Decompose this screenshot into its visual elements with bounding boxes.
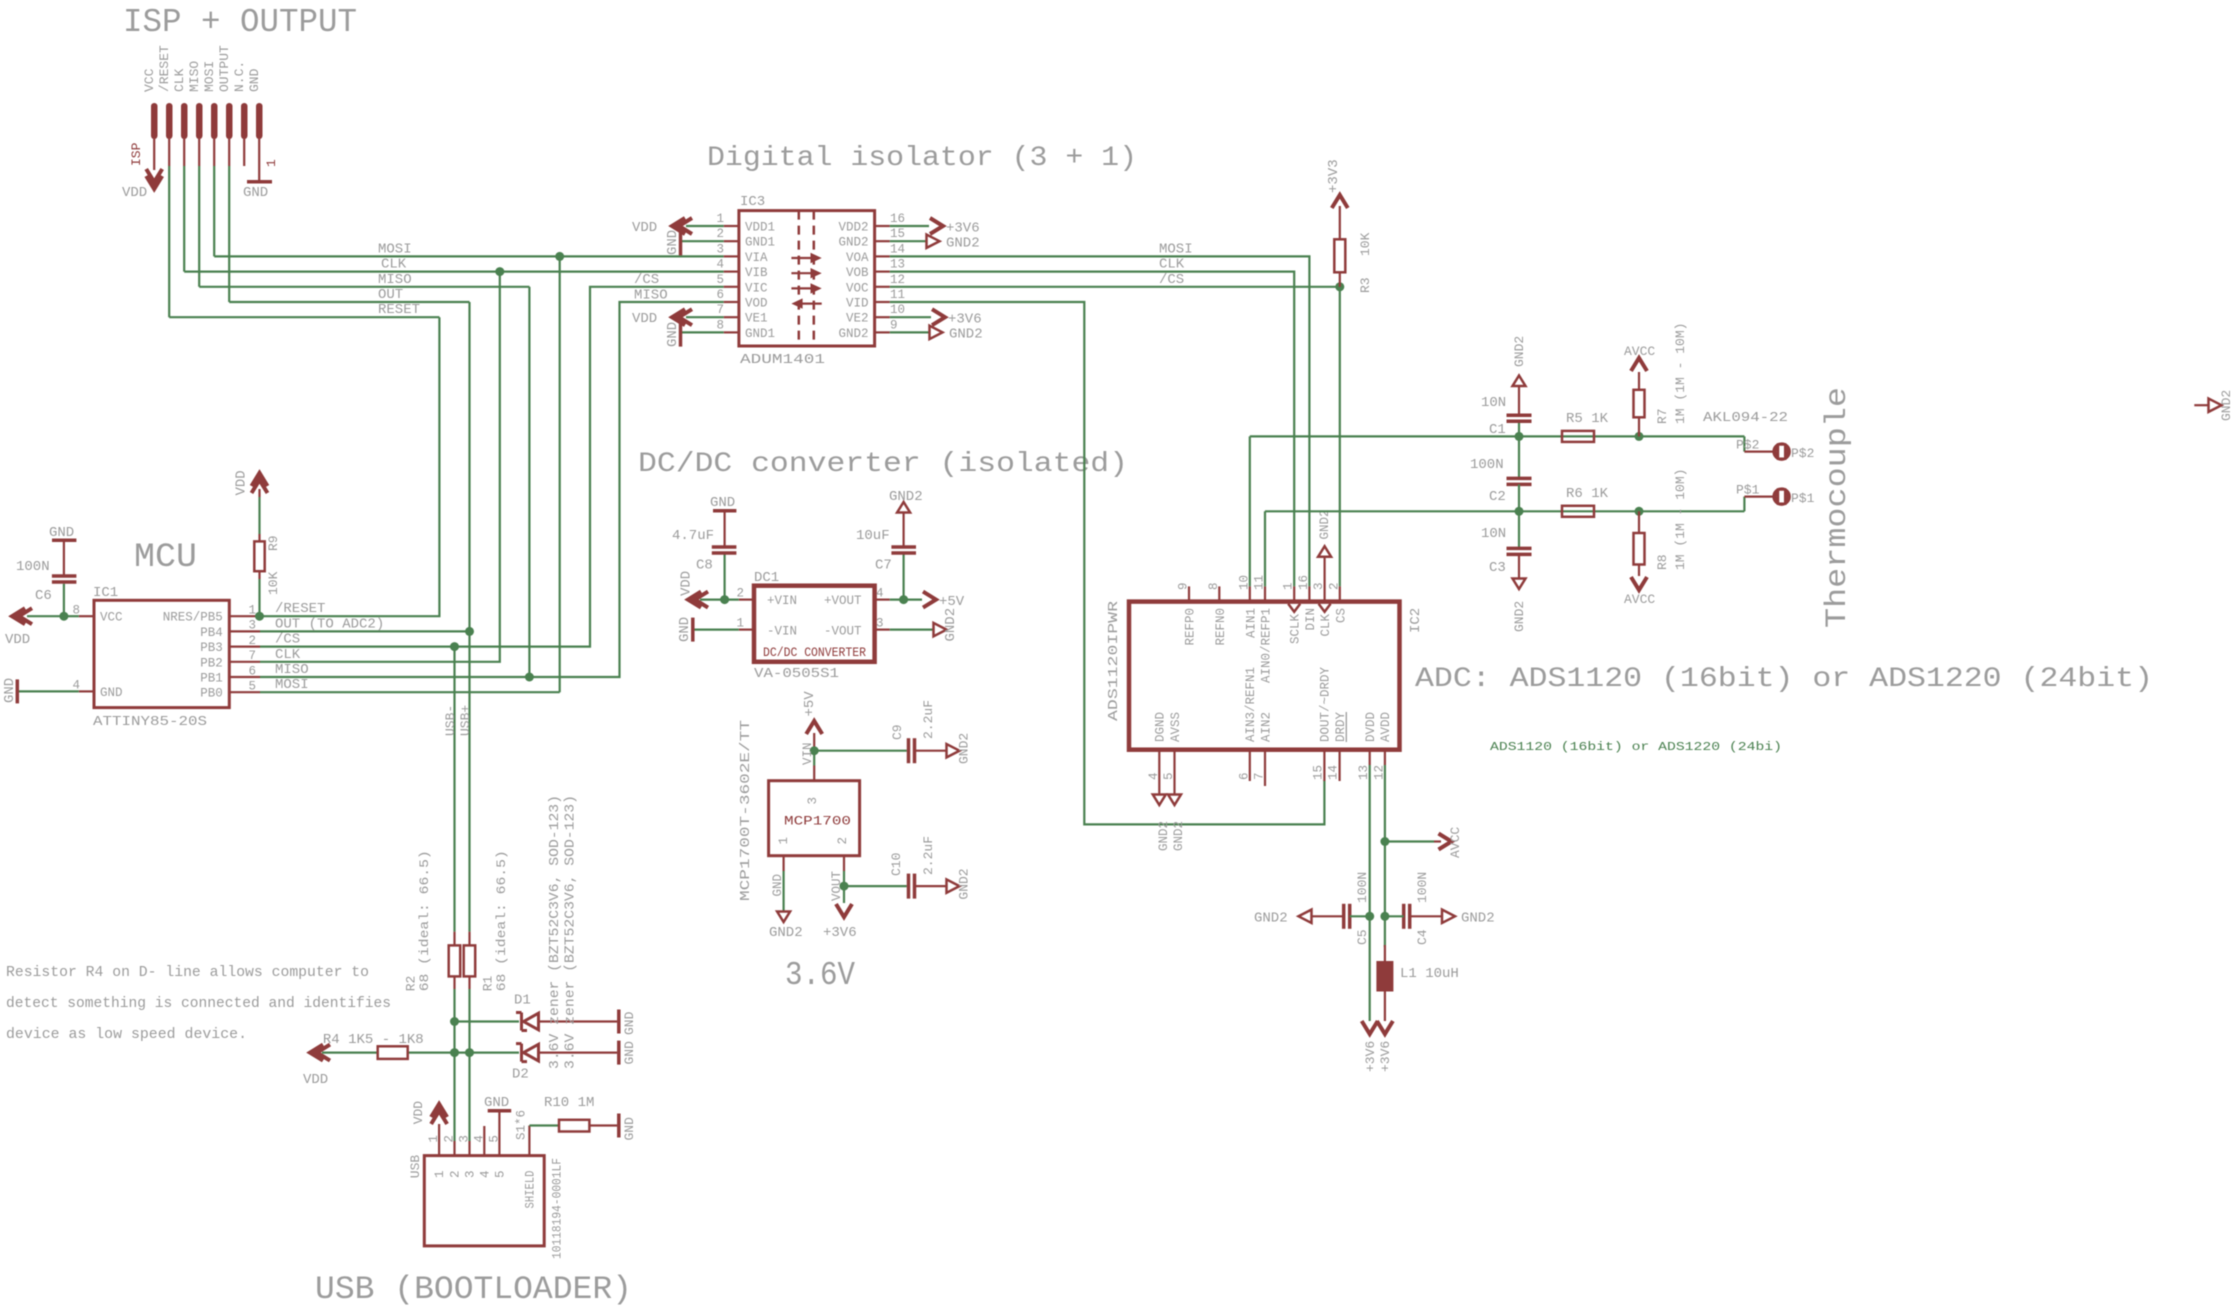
svg-text:VDD: VDD bbox=[234, 470, 250, 495]
wire net OUT horizontal bbox=[229, 301, 469, 303]
svg-text:CLK: CLK bbox=[1319, 614, 1333, 637]
svg-text:VIB: VIB bbox=[745, 266, 768, 280]
svg-text:AVCC: AVCC bbox=[1624, 344, 1655, 359]
wire D2 to GND bbox=[539, 1051, 618, 1053]
svg-text:R3: R3 bbox=[1358, 277, 1373, 293]
wire R10 to GND bbox=[589, 1124, 617, 1126]
pin 16 stub bbox=[875, 225, 890, 227]
svg-text:10uF: 10uF bbox=[856, 528, 890, 544]
svg-text:VOB: VOB bbox=[846, 266, 869, 280]
node junction AVDD / AVCC bbox=[1380, 837, 1389, 846]
capacitor C9 plates bbox=[907, 738, 911, 763]
ground GND bar at IC3 pin8 bbox=[679, 323, 683, 347]
svg-text:10K: 10K bbox=[1358, 232, 1373, 256]
inductor L1 wire upper bbox=[1384, 945, 1386, 961]
svg-text:D2: D2 bbox=[512, 1067, 529, 1083]
svg-text:GND2: GND2 bbox=[1512, 601, 1527, 632]
pin 2 stub bbox=[724, 240, 739, 242]
svg-text:PB0: PB0 bbox=[200, 687, 223, 701]
resistor R8 wire upper bbox=[1638, 511, 1640, 533]
svg-text:AIN0/REFP1: AIN0/REFP1 bbox=[1260, 608, 1274, 683]
svg-text:C6: C6 bbox=[35, 588, 52, 604]
capacitor C3 wire lower bbox=[1518, 554, 1520, 578]
svg-text:10118194-0001LF: 10118194-0001LF bbox=[550, 1158, 564, 1259]
svg-text:GND: GND bbox=[243, 185, 268, 201]
svg-text:ATTINY85-20S: ATTINY85-20S bbox=[93, 714, 207, 730]
wire ISP pin6 OUTPUT down bbox=[228, 139, 230, 166]
svg-text:VE1: VE1 bbox=[745, 312, 768, 326]
svg-text:1: 1 bbox=[264, 159, 279, 167]
svg-text:ISP + OUTPUT: ISP + OUTPUT bbox=[123, 4, 357, 41]
supply +3V6 arrow at pin10 bbox=[932, 309, 945, 325]
capacitor C2 wire upper bbox=[1518, 436, 1520, 477]
svg-text:VOC: VOC bbox=[846, 281, 869, 295]
svg-text:GND2: GND2 bbox=[949, 327, 983, 343]
svg-text:3: 3 bbox=[876, 617, 884, 631]
svg-text:detect something is connected: detect something is connected and identi… bbox=[6, 995, 391, 1012]
pin 3 stub PB4 bbox=[229, 630, 260, 632]
svg-text:MOSI: MOSI bbox=[202, 61, 217, 92]
wire ISP pin3 CLK down bbox=[183, 139, 185, 166]
pin 7 stub bbox=[724, 316, 739, 318]
svg-text:3: 3 bbox=[464, 1170, 478, 1178]
svg-text:7: 7 bbox=[1253, 772, 1267, 780]
pin 1 stub SCLK bbox=[1293, 586, 1295, 601]
capacitor C5 plates bbox=[1342, 904, 1346, 929]
supply GND2 triangle above IC2 pin3 bbox=[1318, 546, 1331, 557]
svg-text:100N: 100N bbox=[1470, 457, 1504, 473]
wire VCC to VDD arrow bbox=[27, 615, 64, 617]
ground GND bar above C8 bbox=[713, 509, 736, 513]
wire GND to pin8 bbox=[682, 331, 724, 333]
svg-text:+VIN: +VIN bbox=[767, 594, 797, 608]
wire D1 to GND bbox=[539, 1020, 618, 1022]
svg-text:GND2: GND2 bbox=[2219, 390, 2233, 421]
pin 4 stub (USB) bbox=[483, 1126, 485, 1156]
svg-text:1: 1 bbox=[736, 617, 744, 631]
svg-text:DC/DC CONVERTER: DC/DC CONVERTER bbox=[763, 646, 866, 660]
overline for DRDY bbox=[1345, 712, 1347, 742]
svg-text:P$1: P$1 bbox=[1791, 491, 1815, 506]
pin 4 stub GND bbox=[79, 690, 94, 692]
svg-text:1: 1 bbox=[433, 1170, 447, 1178]
wire +VIN left bbox=[700, 598, 739, 600]
svg-text:GND2: GND2 bbox=[769, 925, 803, 941]
svg-text:OUT (TO ADC2): OUT (TO ADC2) bbox=[275, 616, 384, 632]
svg-text:100N: 100N bbox=[1355, 872, 1370, 903]
pin 2 stub PB3 bbox=[229, 645, 260, 647]
svg-text:11: 11 bbox=[890, 288, 905, 302]
supply VDD arrow (left) at R4 bbox=[310, 1045, 323, 1061]
ground GND bar at R10 bbox=[617, 1114, 621, 1138]
svg-text:/CS: /CS bbox=[1159, 272, 1184, 288]
capacitor C6 wire lower bbox=[63, 584, 65, 617]
svg-text:MCP1700T-3602E/TT: MCP1700T-3602E/TT bbox=[738, 720, 754, 901]
svg-text:SCLK: SCLK bbox=[1289, 614, 1303, 645]
supply AVCC arrow (down) below R8 bbox=[1631, 577, 1647, 590]
svg-text:GND2: GND2 bbox=[838, 236, 868, 250]
svg-text:SHIELD: SHIELD bbox=[524, 1171, 538, 1209]
isolation barrier dashed line right bbox=[813, 211, 816, 346]
svg-text:GND2: GND2 bbox=[1512, 336, 1527, 367]
capacitor C4 plates bbox=[1402, 904, 1406, 929]
capacitor C9 wire left bbox=[814, 750, 907, 752]
svg-text:-VOUT: -VOUT bbox=[824, 625, 862, 639]
wire pin15 to GND2 bbox=[890, 240, 926, 242]
wire USB- down bbox=[453, 989, 455, 1141]
pin 12 stub AVDD bbox=[1384, 750, 1386, 765]
wire net MISO(ISP) horizontal bbox=[199, 286, 529, 288]
channel arrow A (right) bbox=[791, 257, 815, 259]
capacitor C1 wire lower bbox=[1518, 423, 1520, 436]
resistor R4 body bbox=[378, 1046, 408, 1059]
svg-text:7: 7 bbox=[716, 303, 724, 317]
node junction C1 bbox=[1515, 432, 1524, 441]
node junction R5/R7 bbox=[1635, 432, 1644, 441]
svg-text:GND: GND bbox=[677, 617, 693, 642]
resistor R7 body bbox=[1634, 390, 1645, 418]
wire to pad P$1 bbox=[1743, 497, 1745, 512]
supply +3V6 arrow (down) AVDD bbox=[1377, 1021, 1393, 1034]
wire +VOUT right bbox=[890, 598, 922, 600]
svg-text:C1: C1 bbox=[1489, 422, 1506, 438]
supply VDD arrow (left) at IC3 pin1 bbox=[672, 218, 685, 234]
svg-text:DVDD: DVDD bbox=[1364, 712, 1378, 742]
IC IC2 ADS1120 box bbox=[1129, 602, 1400, 750]
svg-text:VDD: VDD bbox=[632, 220, 657, 236]
diode D1 zener bbox=[516, 1013, 539, 1031]
resistor R10 body bbox=[559, 1120, 589, 1132]
svg-text:GND: GND bbox=[665, 230, 681, 255]
wire pin9 to GND2 bbox=[890, 331, 929, 333]
ground GND bar above C6 bbox=[52, 539, 76, 543]
resistor R2 wire upper bbox=[453, 932, 455, 946]
svg-text:9: 9 bbox=[890, 318, 898, 332]
svg-text:3: 3 bbox=[248, 619, 256, 633]
wire net AIN0/C2 horizontal bbox=[1265, 510, 1744, 512]
svg-text:2.2uF: 2.2uF bbox=[921, 700, 936, 739]
wire net AIN1/C1 horizontal bbox=[1250, 435, 1745, 437]
resistor R3 body bbox=[1334, 239, 1345, 272]
svg-text:4: 4 bbox=[72, 679, 80, 693]
svg-text:C2: C2 bbox=[1489, 489, 1506, 505]
svg-text:1: 1 bbox=[1282, 582, 1296, 590]
wire shield to R10 bbox=[529, 1124, 559, 1126]
svg-text:1M (1M - 10M): 1M (1M - 10M) bbox=[1673, 323, 1688, 424]
node junction DVDD / C5 bbox=[1365, 912, 1374, 921]
pin 11 stub AIN0/REFP1 bbox=[1264, 586, 1266, 601]
svg-text:MISO: MISO bbox=[275, 662, 309, 678]
pin 8 stub REFN0 bbox=[1218, 586, 1220, 601]
svg-text:GND: GND bbox=[49, 525, 74, 541]
IC DC1 VA-0505S1 box bbox=[754, 586, 875, 662]
pin 5 stub GND (USB) bbox=[498, 1112, 500, 1155]
svg-text:CLK: CLK bbox=[381, 257, 407, 273]
svg-text:GND: GND bbox=[622, 1041, 637, 1065]
capacitor C5 wire left bbox=[1312, 915, 1344, 917]
svg-text:GND2: GND2 bbox=[1172, 821, 1186, 851]
capacitor C8 wire lower bbox=[723, 555, 725, 600]
supply +3V6 arrow (down) DVDD bbox=[1362, 1021, 1378, 1034]
pin 4 stub +VOUT bbox=[875, 598, 890, 600]
svg-text:MOSI: MOSI bbox=[275, 677, 309, 693]
pin 10 stub AIN1 bbox=[1249, 586, 1251, 601]
svg-text:C8: C8 bbox=[696, 558, 713, 574]
supply VDD arrow (down) at ISP pin1 bbox=[146, 176, 162, 189]
pin 6 stub bbox=[724, 301, 739, 303]
capacitor C10 wire right bbox=[915, 885, 947, 887]
svg-text:R8: R8 bbox=[1655, 554, 1670, 570]
supply +3V6 arrow (down) below MCP bbox=[836, 904, 852, 917]
svg-text:GND: GND bbox=[484, 1095, 509, 1111]
svg-text:8: 8 bbox=[1207, 582, 1221, 590]
wire net CLK vertical to MCU PB2 bbox=[260, 272, 500, 662]
wire to pad P$2 bbox=[1743, 436, 1745, 451]
svg-text:13: 13 bbox=[890, 258, 905, 272]
wire R4 left bbox=[322, 1051, 378, 1053]
wire GND down bbox=[782, 871, 784, 911]
wire ISP pin2 /RESET down bbox=[168, 139, 170, 166]
resistor R2 body bbox=[449, 945, 461, 976]
capacitor C1 wire upper bbox=[1518, 387, 1520, 416]
resistor R7 wire upper bbox=[1638, 372, 1640, 390]
node junction +VOUT / C7 bbox=[899, 595, 908, 604]
svg-text:GND2: GND2 bbox=[957, 733, 972, 764]
resistor R2 wire lower bbox=[453, 976, 455, 989]
capacitor C4 wire left bbox=[1385, 915, 1404, 917]
svg-text:100N: 100N bbox=[1415, 872, 1430, 903]
supply GND2 triangle at pin15 bbox=[927, 235, 940, 248]
pin SHIELD stub bbox=[528, 1126, 530, 1156]
svg-text:GND: GND bbox=[247, 68, 262, 92]
svg-text:GND2: GND2 bbox=[889, 489, 923, 505]
wire net /CS right bbox=[890, 286, 1340, 288]
capacitor C5 wire right bbox=[1350, 915, 1370, 917]
wire DVDD down bbox=[1369, 765, 1371, 1021]
svg-text:VDD: VDD bbox=[632, 311, 657, 327]
svg-text:PB4: PB4 bbox=[200, 626, 223, 640]
capacitor C7 wire lower bbox=[902, 555, 904, 600]
pad P$2 bbox=[1775, 445, 1789, 459]
svg-text:VA-0505S1: VA-0505S1 bbox=[754, 666, 839, 682]
pin 6 stub PB1 bbox=[229, 676, 260, 678]
svg-text:C3: C3 bbox=[1489, 560, 1506, 576]
capacitor C9 wire right bbox=[915, 750, 947, 752]
svg-text:VDD2: VDD2 bbox=[838, 221, 868, 235]
wire net MOSI horizontal bbox=[214, 255, 724, 257]
svg-text:USB+: USB+ bbox=[458, 705, 473, 736]
capacitor C8 wire upper bbox=[723, 512, 725, 547]
wire net MISO2 from MCU PB1 row to IC3 VOD bbox=[260, 302, 724, 677]
svg-text:USB (BOOTLOADER): USB (BOOTLOADER) bbox=[315, 1271, 632, 1307]
supply GND2 triangle above C1 bbox=[1513, 376, 1526, 387]
svg-text:16: 16 bbox=[1297, 575, 1311, 590]
capacitor C3 plates bbox=[1507, 547, 1532, 551]
pin 1 stub NRES bbox=[229, 615, 260, 617]
capacitor C2 plates bbox=[1507, 477, 1532, 481]
svg-text:MISO: MISO bbox=[187, 61, 202, 92]
ground GND bar at MCU pin4 bbox=[16, 679, 20, 703]
pin 3 stub bbox=[724, 255, 739, 257]
supply VDD arrow (left) at IC3 pin7 bbox=[672, 309, 685, 325]
pin 16 stub DIN bbox=[1308, 586, 1310, 601]
wire net OUT vertical to MCU PB4 and USB+ bbox=[468, 302, 470, 932]
wire GND to pin2 bbox=[682, 240, 724, 242]
wire net MOSI2 MCU PB0 row bbox=[260, 691, 560, 693]
pin 1 stub -VIN bbox=[739, 628, 754, 630]
pin 7 stub AIN2 bbox=[1264, 750, 1266, 786]
svg-text:GND: GND bbox=[622, 1011, 637, 1035]
svg-text:GND2: GND2 bbox=[1318, 509, 1332, 539]
svg-text:MCP1700: MCP1700 bbox=[784, 814, 851, 829]
node junction R6/R8 bbox=[1635, 507, 1644, 516]
pin 3 stub -VOUT bbox=[875, 628, 890, 630]
svg-text:/CS: /CS bbox=[634, 272, 659, 288]
supply GND2 triangle right of C9 bbox=[947, 744, 960, 757]
wire -VOUT right bbox=[890, 628, 933, 630]
svg-text:+3V6: +3V6 bbox=[1363, 1041, 1378, 1072]
svg-text:C5: C5 bbox=[1355, 929, 1370, 945]
svg-text:DGND: DGND bbox=[1154, 712, 1168, 742]
pin 13 stub DVDD bbox=[1369, 750, 1371, 765]
svg-text:ADS1120IPWR: ADS1120IPWR bbox=[1106, 600, 1122, 721]
ground GND bar at IC3 pin2 bbox=[679, 232, 683, 256]
resistor R7 wire lower bbox=[1638, 417, 1640, 436]
wire -VIN left bbox=[695, 628, 739, 630]
svg-text:9: 9 bbox=[1177, 582, 1191, 590]
node junction MCU pin1 / R9 bbox=[255, 612, 264, 621]
node junction +VIN / C8 bbox=[720, 595, 729, 604]
svg-text:/CS: /CS bbox=[275, 632, 300, 648]
svg-text:device as low speed device.: device as low speed device. bbox=[6, 1026, 247, 1043]
svg-text:+VOUT: +VOUT bbox=[824, 594, 862, 608]
wire net RESET horizontal bbox=[169, 316, 439, 318]
capacitor C7 plates bbox=[891, 551, 916, 555]
wire pin10 to +3V6 bbox=[890, 316, 931, 318]
wire net /CS down to IC2 CS bbox=[1339, 287, 1341, 587]
supply GND2 triangle above C7 bbox=[897, 502, 910, 513]
svg-text:R9: R9 bbox=[266, 535, 281, 551]
svg-text:ADUM1401: ADUM1401 bbox=[740, 352, 825, 368]
wire net USB- vertical down to R2 bbox=[453, 647, 455, 932]
svg-text:VDD: VDD bbox=[411, 1101, 426, 1125]
svg-text:+3V6: +3V6 bbox=[823, 925, 857, 941]
pin 7 stub PB2 bbox=[229, 661, 260, 663]
svg-text:C4: C4 bbox=[1415, 929, 1430, 945]
svg-text:GND2: GND2 bbox=[1461, 911, 1495, 927]
clock mark CLK bbox=[1319, 604, 1331, 612]
node junction /CS at R3 bbox=[1335, 282, 1344, 291]
svg-text:GND: GND bbox=[710, 495, 735, 511]
pin 5 stub bbox=[724, 286, 739, 288]
supply AVCC arrow (up) above R7 bbox=[1631, 358, 1647, 371]
svg-text:OUT: OUT bbox=[378, 287, 403, 303]
svg-text:3.6V: 3.6V bbox=[785, 957, 855, 994]
resistor R1 body bbox=[464, 945, 476, 976]
svg-text:4.7uF: 4.7uF bbox=[672, 528, 714, 544]
pin 15 stub DOUT bbox=[1323, 750, 1325, 781]
svg-text:CLK: CLK bbox=[275, 647, 301, 663]
node junction VCC/C6 bbox=[59, 612, 68, 621]
pin 13 stub bbox=[875, 271, 890, 273]
wire AIN0 vertical bbox=[1264, 511, 1266, 586]
svg-text:C10: C10 bbox=[889, 853, 904, 876]
svg-text:VOA: VOA bbox=[846, 251, 869, 265]
svg-text:GND: GND bbox=[665, 322, 681, 347]
svg-text:L1 10uH: L1 10uH bbox=[1400, 966, 1459, 982]
supply AVCC arrow right bbox=[1439, 834, 1452, 850]
capacitor C4 wire right bbox=[1410, 915, 1442, 917]
svg-text:VDD: VDD bbox=[678, 571, 694, 596]
svg-text:8: 8 bbox=[716, 318, 724, 332]
wire pin16 to +3V6 bbox=[890, 225, 929, 227]
node junction D2 row left bbox=[450, 1048, 459, 1057]
wire USB+ down bbox=[468, 989, 470, 1141]
svg-text:5: 5 bbox=[1162, 772, 1176, 780]
diode D2 zener bbox=[516, 1044, 539, 1062]
node junction OUT at MCU PB4 row bbox=[465, 627, 474, 636]
svg-text:GND2: GND2 bbox=[838, 327, 868, 341]
svg-text:P$2: P$2 bbox=[1791, 446, 1814, 461]
svg-text:ADS1120 (16bit) or ADS1220 (24: ADS1120 (16bit) or ADS1220 (24bi) bbox=[1490, 740, 1782, 754]
svg-text:Digital isolator (3 + 1): Digital isolator (3 + 1) bbox=[707, 143, 1137, 174]
svg-text:PB1: PB1 bbox=[200, 672, 223, 686]
svg-text:VIA: VIA bbox=[745, 251, 768, 265]
supply +5V arrow (up) above MCP bbox=[806, 721, 822, 734]
svg-text:REFP0: REFP0 bbox=[1184, 608, 1198, 646]
svg-text:GND2: GND2 bbox=[957, 868, 972, 899]
IC IC3 ADUM1401 box bbox=[739, 211, 875, 346]
connector X1 USB box bbox=[424, 1156, 544, 1246]
svg-text:VDD1: VDD1 bbox=[745, 221, 775, 235]
ground GND bar at DC1 pin1 bbox=[691, 618, 695, 642]
capacitor C6 wire upper bbox=[63, 542, 65, 576]
svg-text:USB: USB bbox=[408, 1155, 423, 1179]
wire net CLK horizontal bbox=[184, 271, 724, 273]
svg-text:VIN: VIN bbox=[801, 742, 815, 765]
svg-text:/RESET: /RESET bbox=[157, 45, 172, 92]
svg-text:PB2: PB2 bbox=[200, 656, 223, 670]
svg-text:6: 6 bbox=[716, 288, 724, 302]
supply GND2 triangle below MCP pin1 bbox=[777, 912, 790, 923]
pin 10 stub bbox=[875, 316, 890, 318]
svg-text:+3V6: +3V6 bbox=[1378, 1041, 1393, 1072]
svg-text:OUTPUT: OUTPUT bbox=[217, 45, 232, 92]
supply GND2 triangle below IC2 pin4 bbox=[1153, 795, 1166, 806]
svg-text:R5 1K: R5 1K bbox=[1566, 411, 1609, 427]
svg-text:5: 5 bbox=[716, 273, 724, 287]
supply GND2 triangle below C3 bbox=[1513, 579, 1526, 590]
svg-text:14: 14 bbox=[1327, 765, 1341, 780]
wire net RESET vertical to MCU pin1 bbox=[260, 317, 439, 616]
svg-text:+3V6: +3V6 bbox=[948, 312, 982, 328]
svg-text:2: 2 bbox=[1327, 582, 1341, 590]
wire net MOSI vertical to MCU PB0 bbox=[559, 256, 561, 692]
resistor R9 body bbox=[254, 541, 264, 571]
svg-text:MOSI: MOSI bbox=[1159, 242, 1193, 258]
svg-text:2: 2 bbox=[836, 837, 850, 845]
capacitor C7 wire upper bbox=[902, 513, 904, 547]
node junction VOUT / C10 bbox=[840, 882, 849, 891]
svg-text:3: 3 bbox=[458, 1135, 472, 1143]
svg-text:VOUT: VOUT bbox=[830, 870, 844, 901]
svg-text:GND2: GND2 bbox=[1157, 821, 1171, 851]
svg-text:AVCC: AVCC bbox=[1624, 592, 1655, 607]
svg-text:N.C.: N.C. bbox=[232, 61, 247, 92]
node junction CLK bbox=[495, 267, 504, 276]
resistor R9 wire lower bbox=[258, 571, 260, 579]
pin 4 stub bbox=[724, 271, 739, 273]
